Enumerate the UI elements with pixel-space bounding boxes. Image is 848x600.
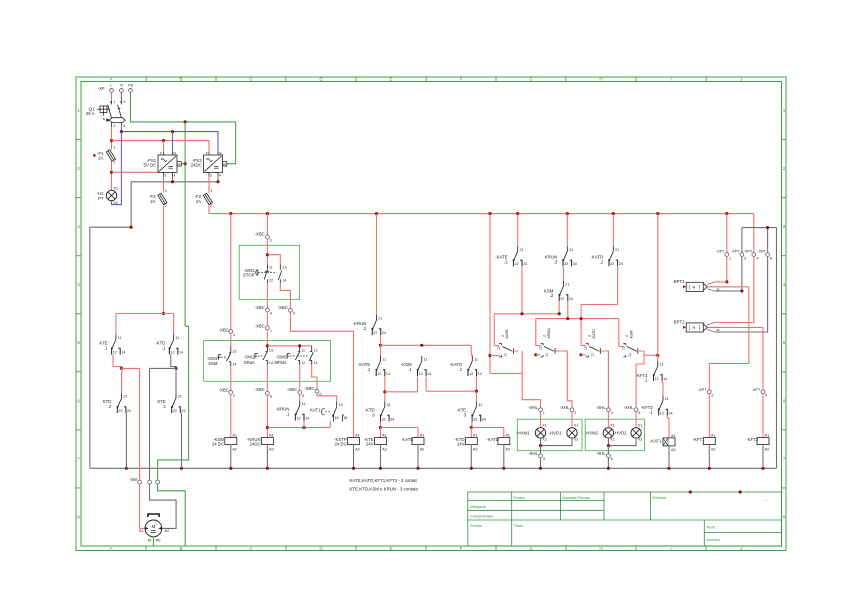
wire 24V to XBC3 (266, 214, 268, 236)
wire to KTE.3 (475, 391, 477, 401)
wire to KTE.1 (115, 314, 117, 335)
wire SW2 to XBC2 (230, 366, 232, 391)
wire 5V to KTE.1 KTD.1 (116, 313, 174, 315)
frame row tick right (782, 197, 787, 199)
terminal -XBC 8 (266, 391, 270, 395)
svg-text:8: 8 (270, 395, 272, 399)
svg-text:5: 5 (638, 411, 640, 415)
svg-text:13: 13 (282, 265, 286, 269)
svg-text:11: 11 (504, 353, 508, 357)
wire to contact 1 top pin (494, 345, 499, 347)
wire KTD coil to 0V (470, 445, 472, 469)
svg-text:24 DC: 24 DC (212, 442, 224, 447)
frame column tick top (425, 77, 427, 82)
frame row tick right (782, 429, 787, 431)
svg-text:11: 11 (175, 336, 179, 340)
wire BPT2 upper output (707, 323, 714, 326)
svg-text:X1: X1 (638, 423, 642, 427)
terminal -XM A1 (138, 480, 142, 484)
wire PE from -XF to right (131, 92, 236, 122)
junction motor phase B (174, 367, 177, 370)
junction 0V PS2 (216, 180, 219, 183)
svg-text:14: 14 (232, 362, 236, 366)
wire 24V to KATE.2 (517, 214, 519, 247)
svg-text:A1: A1 (269, 434, 274, 438)
terminal -XF PE (129, 89, 133, 93)
relay coil KATE (412, 438, 424, 445)
svg-text:A2: A2 (473, 448, 478, 452)
wire KATD.1 output down (475, 376, 477, 391)
wire to contact 4 top pin (619, 346, 624, 348)
wire motor return down (149, 368, 151, 480)
svg-text:5: 5 (77, 340, 80, 345)
svg-text:21: 21 (178, 395, 182, 399)
svg-text:.2: .2 (550, 293, 554, 298)
svg-text:11: 11 (545, 353, 549, 357)
wire to contact 3 left pin (581, 354, 586, 356)
svg-text:X1: X1 (574, 423, 578, 427)
svg-text:1: 1 (113, 100, 115, 104)
svg-text:.1: .1 (286, 411, 290, 416)
frame column tick bottom (425, 546, 427, 551)
wire KTE coil A1 (380, 428, 382, 438)
svg-text:B: B (179, 546, 182, 551)
frame column tick top (495, 77, 497, 82)
junction contact 2 left feed (534, 353, 537, 356)
wire XBC2 to KSM coil (230, 394, 232, 437)
svg-text:PE: PE (128, 84, 134, 88)
svg-text:5: 5 (783, 340, 786, 345)
svg-text:X1: X1 (113, 186, 118, 190)
svg-text:.3: .3 (588, 335, 592, 338)
junction L to power supplies (110, 139, 113, 142)
svg-text:12: 12 (301, 361, 305, 365)
svg-text:4: 4 (174, 173, 176, 177)
svg-text:A1: A1 (355, 434, 360, 438)
green component box SW3 (239, 245, 299, 299)
svg-text:24DC: 24DC (250, 442, 261, 447)
svg-text:24V: 24V (457, 442, 465, 447)
selector switch SW5 pole 2 (298, 346, 314, 365)
svg-text:2: 2 (783, 166, 786, 171)
auxiliary contact KTD.2 (117, 393, 126, 413)
wire KRUN coil to 0V (266, 445, 268, 469)
svg-text:3: 3 (210, 173, 212, 177)
wire F1 to lamp H1 (111, 161, 113, 190)
frame column tick top (285, 77, 287, 82)
wire motor A1 stub (140, 527, 146, 529)
junction KRUN coil feed (266, 426, 269, 429)
junction contact 1 left feed (488, 354, 491, 357)
svg-text:-XBC: -XBC (255, 387, 265, 392)
frame column tick bottom (495, 546, 497, 551)
svg-text:11: 11 (424, 358, 428, 362)
svg-text:2: 2 (77, 166, 80, 171)
auxiliary contact KATE.1 (376, 356, 385, 376)
terminal -XPT 3 (740, 253, 744, 257)
junction 0V bus (180, 467, 183, 470)
svg-text:1: 1 (729, 256, 731, 260)
svg-text:-KSM: -KSM (630, 331, 634, 340)
input arrow -BPT2 (683, 326, 686, 329)
junction 24V bus KATD2 branch (612, 212, 615, 215)
wire KFT1 coil to 0V (708, 445, 710, 469)
svg-text:.1: .1 (644, 378, 648, 383)
wire KTD.2 to 0V (125, 413, 127, 468)
wire to XM A2 (150, 367, 177, 369)
svg-text:-XPT: -XPT (716, 250, 725, 254)
svg-text:24V: 24V (366, 442, 374, 447)
wire 24V to KFT1.1 (657, 214, 659, 361)
svg-text:-XPT: -XPT (744, 250, 753, 254)
junction 0V bus (607, 467, 610, 470)
svg-text:-XF: -XF (98, 86, 105, 91)
svg-text:X1: X1 (542, 423, 546, 427)
selector switch SW5 MPuls pole 1 (287, 346, 300, 365)
svg-text:18: 18 (343, 416, 347, 420)
wire XPT5 to KFT2 coil (762, 394, 764, 438)
svg-text:.1: .1 (367, 367, 371, 372)
svg-text:.1: .1 (459, 367, 463, 372)
svg-text:Entidad: Entidad (653, 495, 667, 500)
wire KTE.2 to 0V (181, 413, 183, 468)
svg-text:4: 4 (757, 256, 759, 260)
svg-text:STOP: STOP (243, 272, 255, 277)
svg-text:3: 3 (123, 100, 125, 104)
svg-text:A2: A2 (269, 448, 274, 452)
auxiliary contact KTE.3 (472, 402, 481, 422)
svg-text:A2: A2 (382, 448, 387, 452)
svg-text:22: 22 (515, 262, 519, 266)
lamp selector contact 4 (623, 344, 638, 357)
svg-text:KATE,KATD,KFT1,KFT2 - 2 contat: KATE,KATD,KFT1,KFT2 - 2 contat (350, 478, 418, 483)
terminal -XHL 2 (570, 408, 574, 412)
wire PS2 output 3 to F2 (208, 177, 210, 193)
svg-text:21: 21 (565, 283, 569, 287)
wire PS2 output 4 (217, 177, 219, 182)
svg-text:A2: A2 (765, 448, 770, 452)
power supply PS1 5V DC (158, 152, 181, 177)
svg-text:-KFT2: -KFT2 (746, 437, 759, 442)
wire jog to XHL1 drop (490, 373, 522, 375)
svg-text:-XBC: -XBC (255, 305, 265, 310)
wire SW3 14 to XBC9 (280, 283, 290, 308)
svg-text:A2: A2 (711, 448, 716, 452)
wire KTD.3 to KTE coil (380, 422, 382, 428)
wire N to PS2 N (121, 125, 218, 152)
svg-text:1: 1 (233, 333, 235, 337)
svg-text:Dibujado: Dibujado (470, 504, 487, 509)
wire KRUN.3 pin 32 stub (562, 266, 564, 268)
wire KTE.3 to KTD coil (471, 422, 473, 428)
junction 0V bus (229, 467, 232, 470)
svg-text:5: 5 (302, 394, 304, 398)
lamp selector contact 1 (499, 344, 514, 357)
svg-text:22: 22 (610, 262, 614, 266)
wire 0V bus (90, 467, 777, 469)
svg-text:PE: PE (177, 162, 181, 166)
wire PS1 output 3 to F3 (163, 177, 165, 193)
wire KTD.1 output (171, 355, 176, 369)
frame column tick bottom (565, 546, 567, 551)
wire motor phase down (139, 368, 141, 480)
frame column tick top (635, 77, 637, 82)
svg-text:-HVD1: -HVD1 (549, 430, 563, 435)
svg-text:3: 3 (543, 457, 545, 461)
svg-text:34: 34 (390, 417, 394, 421)
circuit breaker Q1 25A (97, 101, 125, 127)
wire KSTP coil to 0V (353, 445, 355, 469)
svg-text:G: G (529, 77, 533, 82)
svg-text:]: ] (699, 285, 700, 290)
svg-text:A1: A1 (505, 434, 510, 438)
svg-text:H: H (599, 546, 602, 551)
svg-text:24: 24 (569, 297, 573, 301)
svg-text:12: 12 (660, 411, 664, 415)
frame column tick top (215, 77, 217, 82)
junction PE (184, 120, 187, 123)
svg-text:E: E (389, 77, 392, 82)
selector switch SW2 SSM (218, 347, 231, 366)
wire SW5 12 to XBC5 (299, 365, 301, 391)
terminal -XBC 4 (266, 308, 270, 312)
wire XHL3 to 0V (540, 458, 542, 469)
wire motor PE to frame (152, 537, 154, 546)
fuse F3 2A (158, 193, 167, 204)
svg-text:-BPT1: -BPT1 (672, 279, 685, 284)
svg-text:-XBC: -XBC (287, 387, 297, 392)
auxiliary contact KFT1.1 (653, 361, 662, 381)
frame row tick right (782, 371, 787, 373)
svg-text:11: 11 (628, 353, 632, 357)
svg-text:KATE: KATE (402, 437, 413, 442)
svg-text:X2: X2 (638, 438, 642, 442)
svg-text:21: 21 (378, 317, 382, 321)
wire BPT1 lower output (707, 289, 714, 291)
svg-text:3: 3 (783, 224, 786, 229)
junction motor phase A (120, 367, 123, 370)
junction KTE coil feed (379, 426, 382, 429)
wire to KATE coil (381, 427, 419, 429)
frame row tick left (76, 371, 81, 373)
svg-text:15: 15 (339, 403, 343, 407)
wire KSM.2 pin24 to bus B (567, 301, 569, 319)
junction XPT6 return (766, 226, 769, 229)
svg-text:1: 1 (113, 146, 115, 150)
indicator lamp -HVM2 (603, 428, 613, 438)
svg-text:X1: X1 (610, 423, 614, 427)
auxiliary contact KTE.1 (111, 335, 120, 355)
wire 24V bus end to XPT4 (753, 214, 755, 253)
svg-text:H: H (599, 77, 602, 82)
frame column tick bottom (215, 546, 217, 551)
svg-text:A1: A1 (232, 434, 237, 438)
junction 0V bus (352, 467, 355, 470)
relay coil KTD 24V (465, 438, 477, 445)
wire KAT1 contact to junction (329, 421, 331, 428)
wire bus A to contact 1 top (493, 314, 495, 346)
drawing frame inner border (81, 82, 782, 547)
svg-text:14: 14 (478, 372, 482, 376)
svg-text:-XBC: -XBC (278, 305, 288, 310)
junction SW3 poles (266, 253, 269, 256)
wire SW3 12 to XBC4 (266, 283, 268, 308)
dc motor M (145, 520, 162, 537)
junction 24V bus lamp logic branch (488, 212, 491, 215)
wire KATD coil to 0V (503, 445, 505, 469)
svg-text:-XBC: -XBC (255, 323, 265, 328)
frame column tick bottom (635, 546, 637, 551)
junction lamps 1 (539, 444, 542, 447)
relay coil KATD (498, 438, 510, 445)
relay coil KFT1 (703, 438, 715, 445)
wire contact 4 feed from KFT column (644, 354, 658, 356)
wire KAT1 coil to 0V (668, 446, 670, 468)
title block (468, 492, 782, 546)
wire 0V down left side (90, 182, 131, 469)
svg-text:-SW2: -SW2 (207, 356, 218, 361)
relay coil KRUN 24DC (261, 438, 273, 445)
wire PE down to PS2 PE (227, 122, 236, 164)
svg-text:KAT1: KAT1 (310, 408, 321, 413)
wire to SW3 NO pole (267, 255, 280, 265)
power supply PS2 24V DC (204, 152, 227, 177)
wire BPT1 upper output (707, 282, 714, 285)
wire XPT3 to BPT1 (741, 256, 743, 291)
svg-text:A1: A1 (382, 434, 387, 438)
svg-text:2: 2 (711, 393, 713, 397)
terminal -XF N (120, 89, 124, 93)
svg-text:PE: PE (223, 162, 227, 166)
wire XHL5 to lamp (635, 412, 637, 428)
terminal -XPT 4 (752, 253, 756, 257)
wire BPT2 lower output (707, 330, 714, 333)
svg-text:11: 11 (302, 402, 306, 406)
wire 24V to lamp contact 1 (489, 214, 491, 374)
svg-text:I: I (670, 546, 671, 551)
svg-text:PE: PE (156, 539, 162, 543)
indicator lamp -HVM1 (535, 428, 545, 438)
wire XBC3 into SW3 (266, 239, 268, 265)
svg-text:F: F (460, 77, 463, 82)
wire HVM1 to junction (540, 438, 542, 446)
svg-text:24: 24 (619, 262, 623, 266)
auxiliary contact KRUN.2 (372, 315, 381, 335)
relay coil KSTP 24DC (348, 438, 360, 445)
terminal -XHL 4 (607, 408, 611, 412)
junction 24V bus KRUN3 branch (566, 212, 569, 215)
svg-text:1: 1 (783, 108, 786, 113)
svg-text:8: 8 (783, 514, 786, 519)
wire KATD coil A1 (503, 428, 505, 438)
svg-text:11: 11 (660, 363, 664, 367)
auxiliary contact KSM.2 (559, 281, 568, 301)
junction N (120, 130, 123, 133)
svg-text:-KATD: -KATD (592, 329, 596, 340)
frame column tick top (355, 77, 357, 82)
junction bus A end (558, 312, 561, 315)
frame column tick top (145, 77, 147, 82)
svg-text:-XBC: -XBC (219, 388, 229, 393)
frame column tick bottom (145, 546, 147, 551)
svg-text:-KRUN: -KRUN (547, 328, 551, 340)
wire contact 4 to XHL5 (636, 351, 644, 408)
relay coil KSM 24DC (225, 438, 237, 445)
wire junction to KSM.1 output (385, 391, 418, 393)
svg-text:1: 1 (543, 411, 545, 415)
junction 0V bus (502, 467, 505, 470)
wire bus C to contact 3 (580, 305, 582, 347)
svg-text:4: 4 (219, 173, 221, 177)
svg-text:G: G (529, 546, 533, 551)
junction 0V bus (667, 467, 670, 470)
wire sensor return top (742, 227, 777, 229)
wire to XHL6 (607, 446, 609, 454)
wire PE to frame (158, 484, 186, 546)
junction lamps 2 (607, 444, 610, 447)
auxiliary contact KATD.1 (467, 356, 476, 376)
svg-text:2: 2 (165, 204, 167, 208)
wire L to PS2 F (112, 141, 210, 152)
wire contact 2 to XHL2 (560, 351, 572, 408)
junction 0V bus (416, 467, 419, 470)
svg-text:52: 52 (717, 328, 721, 332)
junction SW5 feed (298, 344, 301, 347)
frame row tick right (782, 139, 787, 141)
wire KSM KATD feed (381, 344, 472, 346)
terminal -XM PE (156, 480, 160, 484)
terminal -XBC 1 (229, 330, 233, 334)
svg-text:34: 34 (482, 417, 486, 421)
junction KATE.2 to bus A (520, 312, 523, 315)
wire KSM coil to 0V (230, 445, 232, 469)
drawing frame outer border (76, 77, 786, 551)
junction KFT column to contact 4 (656, 354, 659, 357)
svg-text:R: R (693, 284, 696, 289)
wire bus B to contact 2 top (535, 319, 537, 346)
speed sensor BPT1 (686, 282, 707, 291)
svg-text:12: 12 (621, 346, 625, 350)
wire XM to motor A2 (150, 484, 177, 528)
svg-text:.2: .2 (600, 259, 604, 264)
wire XPT3 up (741, 228, 743, 253)
svg-text:12: 12 (497, 346, 501, 350)
svg-text:N: N (120, 84, 123, 88)
svg-text:-XPT: -XPT (757, 250, 766, 254)
wire XBC9 to KSTP coil (291, 312, 354, 437)
terminal -XHL 5 (634, 408, 638, 412)
svg-text:-XBC: -XBC (255, 232, 265, 237)
wire PS1 output 4 (172, 177, 174, 182)
svg-text:-HVM1: -HVM1 (516, 430, 530, 435)
svg-text:I: I (670, 77, 671, 82)
wire 0V bus top (131, 181, 218, 183)
wire PE main vertical (184, 122, 186, 327)
svg-text:24: 24 (523, 262, 527, 266)
wire KSM.1 pin14 down (425, 377, 427, 392)
wire PE to XM (158, 326, 189, 480)
wire 24V to KATD.2 (612, 214, 614, 247)
svg-text:A1: A1 (139, 529, 144, 533)
svg-text:14: 14 (305, 416, 309, 420)
svg-text:2: 2 (210, 204, 212, 208)
junction 0V corner (130, 226, 133, 229)
svg-text:X2: X2 (542, 438, 546, 442)
svg-text:14: 14 (269, 361, 273, 365)
svg-text:3: 3 (77, 224, 80, 229)
auxiliary contact KATD.2 (608, 246, 617, 266)
svg-text:25 A: 25 A (86, 111, 95, 116)
